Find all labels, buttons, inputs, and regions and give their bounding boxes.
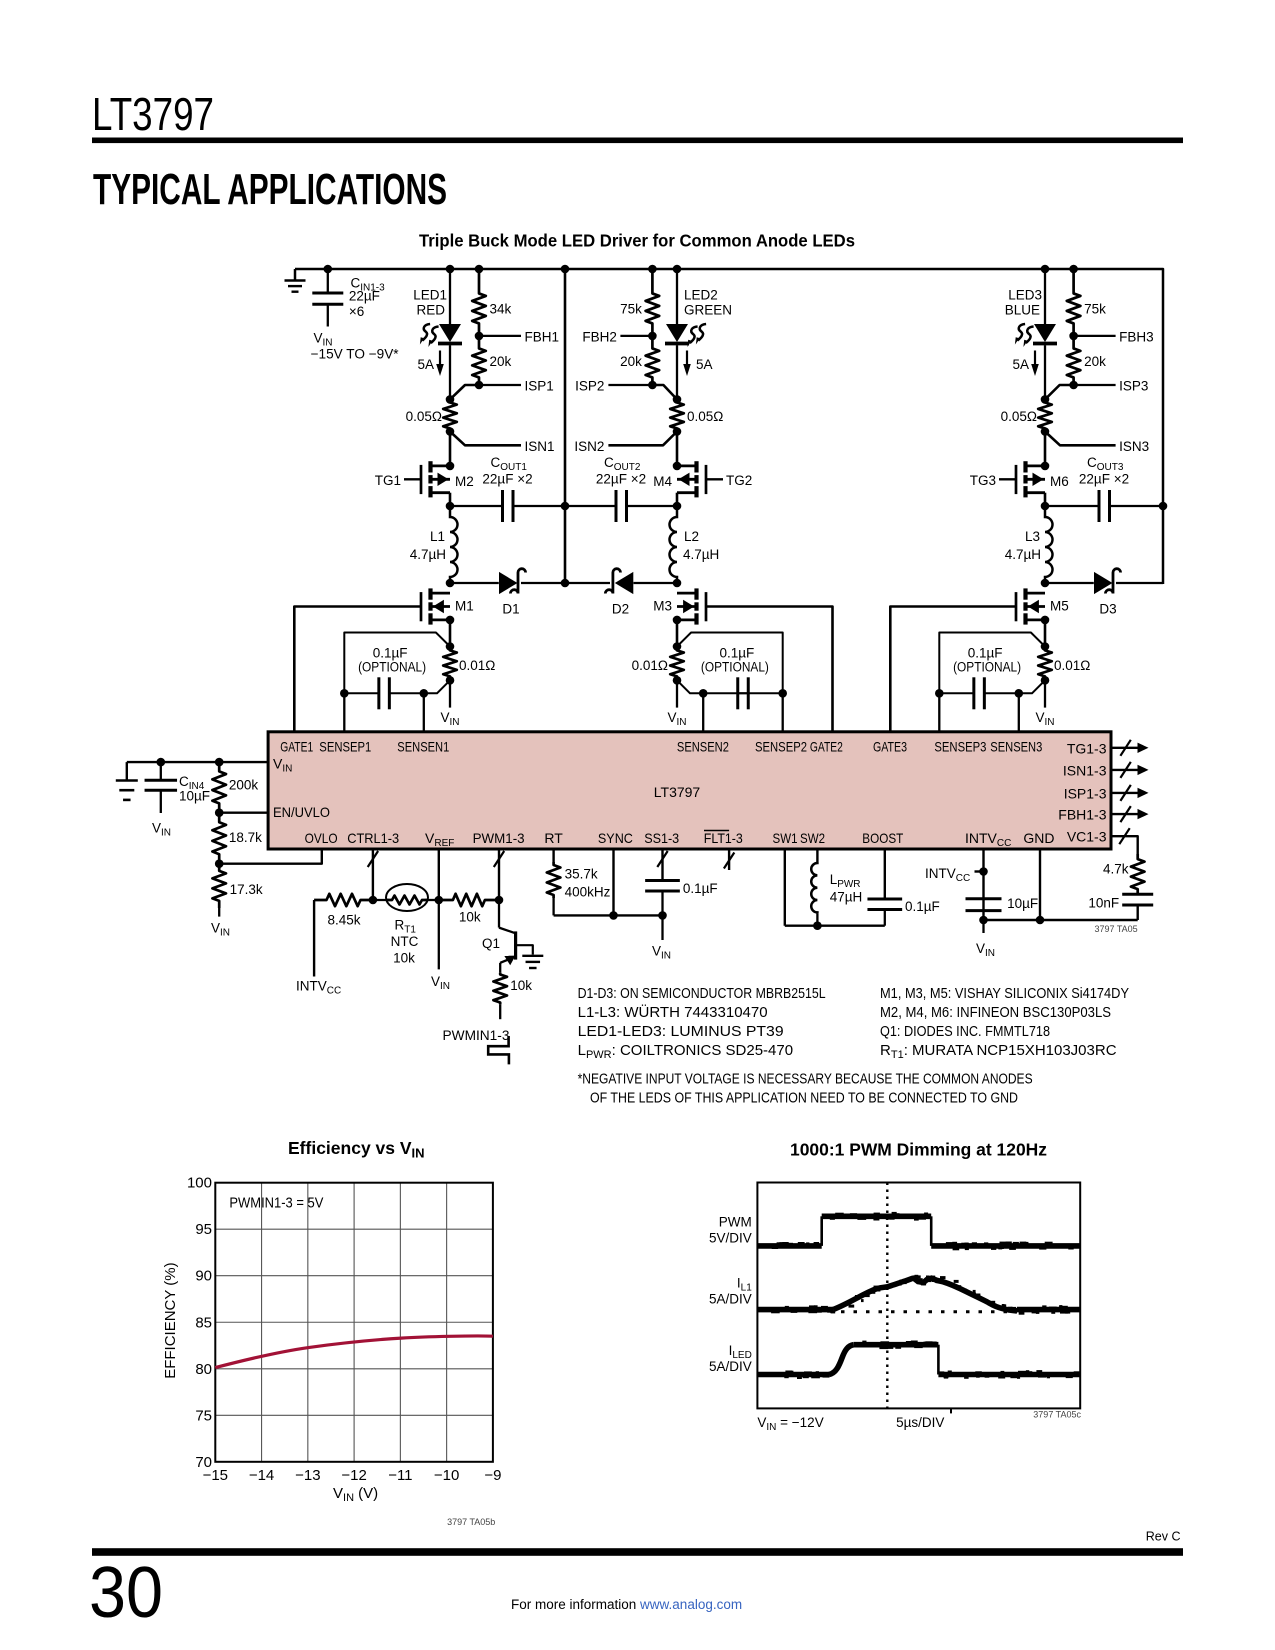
node VIN return channel 3 — [1044, 680, 1046, 707]
svg-text:M4: M4 — [653, 474, 672, 489]
svg-text:400kHz: 400kHz — [565, 885, 611, 900]
node SW2 switch node — [673, 579, 682, 588]
wire FBH1-3 output with arrow — [1111, 813, 1139, 815]
node SW3 switch node — [1041, 579, 1050, 588]
node VIN return channel 1 — [449, 680, 451, 707]
svg-text:4.7k: 4.7k — [1103, 862, 1129, 877]
svg-text:0.05Ω: 0.05Ω — [406, 409, 442, 424]
svg-text:−15: −15 — [203, 1467, 228, 1484]
capacitor 0.1uF BOOST — [884, 849, 886, 898]
node FBH1 — [475, 332, 484, 341]
svg-text:0.1µF: 0.1µF — [720, 645, 755, 660]
wire LED1 anode from rail — [446, 265, 455, 274]
capacitor COUT3 22uF x2 — [1045, 505, 1099, 507]
wire SYNC pin stub — [612, 849, 614, 915]
capacitor 10uF INTVCC — [966, 897, 1002, 900]
LED LED1 RED — [439, 324, 461, 342]
svg-text:TG1: TG1 — [375, 473, 401, 488]
svg-text:EFFICIENCY (%): EFFICIENCY (%) — [162, 1262, 179, 1378]
svg-text:ISP2: ISP2 — [575, 379, 604, 394]
svg-text:RED: RED — [416, 303, 445, 318]
svg-text:−15V TO −9V*: −15V TO −9V* — [311, 346, 400, 361]
svg-text:RT: RT — [544, 830, 563, 846]
svg-text:5µs/DIV: 5µs/DIV — [896, 1415, 944, 1430]
svg-text:90: 90 — [195, 1268, 212, 1285]
svg-text:M5: M5 — [1050, 599, 1069, 614]
svg-text:10k: 10k — [393, 951, 415, 966]
svg-text:−13: −13 — [295, 1467, 320, 1484]
svg-text:L3: L3 — [1025, 529, 1040, 544]
svg-text:22µF ×2: 22µF ×2 — [482, 472, 532, 487]
svg-text:FLT1-3: FLT1-3 — [704, 830, 743, 846]
svg-text:22µF ×2: 22µF ×2 — [596, 472, 646, 487]
wire TG1-3 output with arrow — [1111, 747, 1139, 749]
wire LED2 cathode — [676, 345, 678, 399]
svg-text:LED2: LED2 — [684, 288, 718, 303]
svg-text:Triple Buck Mode LED Driver fo: Triple Buck Mode LED Driver for Common A… — [419, 231, 855, 251]
svg-text:BLUE: BLUE — [1005, 303, 1040, 318]
resistor 0.05 ohm sense channel 2 — [673, 395, 682, 404]
svg-text:BOOST: BOOST — [862, 830, 903, 846]
scope trace IL1 noise — [830, 1310, 834, 1313]
wire SENSEP2 pin — [782, 693, 784, 732]
svg-text:D1: D1 — [502, 602, 519, 617]
svg-text:20k: 20k — [1084, 354, 1106, 369]
wire VIN pin to input — [127, 761, 268, 763]
ground symbol at input — [294, 269, 297, 280]
node ISP1 — [475, 381, 484, 390]
svg-text:M3: M3 — [653, 599, 672, 614]
transistor M1 NMOS — [428, 588, 432, 599]
current label 5A channel 3 — [1034, 351, 1036, 366]
scope trace PWM — [757, 1243, 821, 1249]
svg-text:47µH: 47µH — [830, 890, 863, 905]
svg-text:GATE3: GATE3 — [873, 739, 907, 755]
svg-text:NTC: NTC — [391, 934, 419, 949]
resistor 75k channel 3 — [1069, 265, 1078, 274]
resistor 10k base — [439, 894, 499, 906]
resistor 34k channel 1 — [475, 265, 484, 274]
wire LED3 cathode — [1044, 345, 1046, 399]
scope trace IL1 zero dotted baseline — [841, 1310, 1017, 1313]
wire M1 source node — [446, 616, 455, 625]
svg-text:SS1-3: SS1-3 — [644, 830, 679, 846]
svg-text:100: 100 — [187, 1175, 212, 1192]
node FBH2 — [648, 332, 657, 341]
svg-text:SENSEN2: SENSEN2 — [677, 739, 729, 755]
svg-text:FBH1-3: FBH1-3 — [1058, 807, 1106, 823]
svg-text:FBH3: FBH3 — [1119, 330, 1154, 345]
capacitor CIN4 10uF — [157, 758, 166, 767]
svg-text:75: 75 — [195, 1407, 212, 1424]
resistor 4.7k compensation — [1131, 854, 1145, 894]
wire M5 source node — [1041, 616, 1050, 625]
svg-text:75k: 75k — [620, 302, 642, 317]
wire INTVCC supply stub — [313, 900, 315, 977]
node SW1 switch node — [446, 579, 455, 588]
node ISN3 — [1045, 432, 1116, 446]
wire sense to M6 — [1044, 432, 1047, 466]
svg-text:D3: D3 — [1099, 602, 1116, 617]
svg-text:For more information www.analo: For more information www.analog.com — [511, 1597, 742, 1612]
svg-text:20k: 20k — [620, 354, 642, 369]
resistor 20k channel 3 — [1067, 336, 1081, 385]
svg-text:17.3k: 17.3k — [230, 882, 263, 897]
svg-text:0.01Ω: 0.01Ω — [459, 658, 495, 673]
svg-text:VIN (V): VIN (V) — [333, 1485, 378, 1504]
capacitor 0.1uF optional channel 3 — [939, 633, 1045, 694]
svg-text:10k: 10k — [510, 978, 532, 993]
node output bus channel 3 — [1159, 502, 1168, 511]
svg-text:GREEN: GREEN — [684, 303, 732, 318]
resistor 75k channel 2 — [648, 265, 657, 274]
svg-text:5A: 5A — [1012, 357, 1029, 372]
thermistor RT1 NTC 10k — [373, 899, 389, 901]
resistor 8.45k — [314, 894, 373, 906]
svg-text:5A/DIV: 5A/DIV — [709, 1292, 752, 1307]
svg-text:85: 85 — [195, 1314, 212, 1331]
wire ISN1-3 output with arrow — [1111, 769, 1139, 771]
diode D2 schottky — [565, 582, 610, 584]
resistor 0.01 ohm channel 2 — [673, 642, 682, 651]
svg-text:SW1: SW1 — [773, 830, 798, 846]
svg-text:0.05Ω: 0.05Ω — [1001, 409, 1037, 424]
svg-text:22µF: 22µF — [349, 289, 380, 304]
diode D3 schottky — [1045, 582, 1094, 584]
wire LED2 anode from rail — [673, 265, 682, 274]
transistor M3 NMOS — [694, 588, 698, 599]
scope trace ILED led current — [757, 1372, 829, 1378]
svg-text:OF THE LEDS OF THIS APPLICATIO: OF THE LEDS OF THIS APPLICATION NEED TO … — [590, 1089, 1018, 1106]
resistor 35.7k RT — [552, 849, 554, 862]
svg-text:22µF ×2: 22µF ×2 — [1079, 472, 1129, 487]
svg-text:34k: 34k — [490, 302, 512, 317]
footer bar — [92, 1548, 1183, 1556]
svg-text:LED3: LED3 — [1008, 288, 1042, 303]
svg-text:0.01Ω: 0.01Ω — [632, 658, 668, 673]
svg-text:(OPTIONAL): (OPTIONAL) — [358, 660, 426, 675]
wire sense to M4 — [676, 432, 679, 466]
chart efficiency gridlines — [261, 1183, 263, 1462]
resistor 0.01 ohm channel 3 — [1041, 642, 1050, 651]
wire VC1-3 to compensation — [1111, 836, 1138, 854]
wire SENSEN2 pin — [702, 693, 704, 732]
wire GATE3 to M5 gate — [890, 607, 1016, 732]
wire sense to M2 — [449, 432, 452, 466]
svg-text:200k: 200k — [229, 778, 259, 793]
svg-text:D2: D2 — [612, 602, 629, 617]
svg-text:L1: L1 — [430, 529, 445, 544]
svg-text:−12: −12 — [341, 1467, 366, 1484]
resistor 17.3k — [212, 864, 226, 908]
svg-text:3797 TA05c: 3797 TA05c — [1033, 1410, 1081, 1420]
resistor 20k channel 2 — [646, 336, 660, 385]
wire GND return bottom right — [984, 919, 1138, 921]
svg-text:95: 95 — [195, 1221, 212, 1238]
svg-text:Q1: Q1 — [482, 936, 500, 951]
svg-text:Efficiency vs VIN: Efficiency vs VIN — [288, 1138, 425, 1161]
resistor 0.05 ohm sense channel 3 — [1041, 395, 1050, 404]
svg-text:80: 80 — [195, 1361, 212, 1378]
svg-text:VC1-3: VC1-3 — [1067, 829, 1107, 845]
svg-text:LED1-LED3: LUMINUS PT39: LED1-LED3: LUMINUS PT39 — [578, 1023, 784, 1040]
svg-text:(OPTIONAL): (OPTIONAL) — [701, 660, 769, 675]
svg-text:*NEGATIVE INPUT VOLTAGE IS NEC: *NEGATIVE INPUT VOLTAGE IS NECESSARY BEC… — [578, 1071, 1033, 1088]
svg-text:ISN1: ISN1 — [525, 439, 555, 454]
svg-text:SENSEP3: SENSEP3 — [934, 739, 986, 755]
svg-text:(OPTIONAL): (OPTIONAL) — [953, 660, 1021, 675]
svg-text:30: 30 — [89, 1553, 163, 1633]
svg-text:0.05Ω: 0.05Ω — [687, 409, 723, 424]
svg-text:ISP1-3: ISP1-3 — [1064, 785, 1107, 801]
resistor 200k — [215, 758, 224, 767]
scope trace IL1 inductor current — [757, 1307, 833, 1313]
svg-text:SENSEN1: SENSEN1 — [397, 739, 449, 755]
capacitor COUT1 22uF x2 — [450, 505, 503, 507]
transistor M5 NMOS — [1023, 588, 1027, 599]
svg-text:GND: GND — [1023, 830, 1054, 846]
svg-text:FBH1: FBH1 — [525, 330, 560, 345]
wire M3 source node — [673, 616, 682, 625]
svg-text:20k: 20k — [490, 354, 512, 369]
inductor LPWR 47uH — [816, 849, 818, 862]
svg-text:0.1µF: 0.1µF — [373, 645, 408, 660]
diode D1 schottky — [450, 582, 499, 584]
chart pwm frame — [757, 1183, 1080, 1409]
svg-text:M1, M3, M5: VISHAY SILICONIX S: M1, M3, M5: VISHAY SILICONIX Si4174DY — [880, 985, 1129, 1002]
node VIN bottom — [979, 916, 988, 925]
svg-text:RT1: MURATA NCP15XH103J03RC: RT1: MURATA NCP15XH103J03RC — [880, 1042, 1117, 1061]
svg-text:Rev C: Rev C — [1146, 1530, 1181, 1544]
node ISN1 — [450, 432, 521, 446]
svg-text:ISP3: ISP3 — [1119, 379, 1148, 394]
svg-text:10k: 10k — [459, 910, 481, 925]
svg-text:ISN3: ISN3 — [1119, 439, 1149, 454]
wire GND pin stub — [1039, 849, 1041, 920]
node PWM — [495, 896, 504, 905]
svg-text:10µF: 10µF — [1007, 896, 1038, 911]
svg-text:0.1µF: 0.1µF — [968, 645, 1003, 660]
wire SW1 pin stub — [784, 849, 786, 926]
LED LED2 GREEN — [666, 324, 688, 342]
svg-text:35.7k: 35.7k — [565, 867, 598, 882]
svg-text:−10: −10 — [434, 1467, 459, 1484]
svg-text:PWM1-3: PWM1-3 — [473, 830, 525, 846]
svg-text:EN/UVLO: EN/UVLO — [273, 804, 330, 820]
svg-text:4.7µH: 4.7µH — [410, 547, 446, 562]
inductor L2 4.7uH — [670, 506, 678, 583]
svg-text:0.1µF: 0.1µF — [905, 899, 940, 914]
wire SENSEN3 pin — [1018, 693, 1020, 732]
svg-text:5A: 5A — [696, 357, 713, 372]
svg-text:L1-L3: WÜRTH 7443310470: L1-L3: WÜRTH 7443310470 — [578, 1003, 768, 1021]
wire M6 drain to output node — [1044, 493, 1047, 506]
wire SENSEN1 pin — [423, 693, 425, 732]
wire VREF pin stub — [438, 849, 440, 900]
svg-text:18.7k: 18.7k — [229, 830, 262, 845]
wire GATE1 to M1 gate — [294, 607, 421, 732]
svg-text:D1-D3: ON SEMICONDUCTOR MBRB25: D1-D3: ON SEMICONDUCTOR MBRB2515L — [578, 985, 826, 1002]
svg-text:10nF: 10nF — [1088, 896, 1119, 911]
svg-text:3797 TA05b: 3797 TA05b — [447, 1517, 495, 1527]
svg-text:PWMIN1-3: PWMIN1-3 — [443, 1028, 510, 1043]
svg-text:−9: −9 — [484, 1467, 501, 1484]
wire SENSEP1 pin — [343, 693, 345, 732]
svg-text:4.7µH: 4.7µH — [1005, 547, 1041, 562]
capacitor COUT2 22uF x2 — [565, 505, 616, 507]
svg-text:4.7µH: 4.7µH — [683, 547, 719, 562]
resistor 18.7k — [212, 813, 226, 864]
ground symbol CIN4 — [126, 762, 128, 779]
chart efficiency curve — [215, 1336, 493, 1368]
wire EN/UVLO — [215, 808, 224, 817]
node ISN2 — [608, 432, 677, 446]
svg-text:CTRL1-3: CTRL1-3 — [347, 830, 399, 846]
svg-text:5A: 5A — [417, 357, 434, 372]
node ISP3 — [1069, 381, 1078, 390]
svg-text:GATE1: GATE1 — [280, 739, 313, 755]
svg-text:TG3: TG3 — [970, 473, 996, 488]
svg-text:10µF: 10µF — [179, 789, 210, 804]
svg-text:1000:1 PWM Dimming at 120Hz: 1000:1 PWM Dimming at 120Hz — [790, 1140, 1047, 1160]
wire CTRL1-3 pin stub — [372, 849, 374, 900]
svg-text:LT3797: LT3797 — [92, 88, 214, 140]
capacitor 0.1uF optional channel 2 — [677, 633, 783, 694]
transistor M2 PMOS — [428, 461, 432, 472]
capacitor 0.1uF optional channel 1 — [344, 633, 450, 694]
svg-text:SYNC: SYNC — [598, 830, 633, 846]
current label 5A channel 1 — [439, 351, 441, 366]
chart efficiency frame — [215, 1183, 493, 1462]
svg-text:0.01Ω: 0.01Ω — [1054, 658, 1090, 673]
svg-text:×6: ×6 — [349, 304, 364, 319]
header rule — [92, 138, 1183, 144]
svg-text:SW2: SW2 — [800, 830, 825, 846]
op-amp U1 LT3797 controller IC body — [268, 732, 1111, 849]
svg-text:TG1-3: TG1-3 — [1067, 740, 1107, 756]
svg-text:OVLO: OVLO — [305, 830, 338, 846]
wire output bus channel 1-2 — [564, 269, 567, 583]
wire GATE2 to M3 gate — [706, 607, 833, 732]
svg-text:GATE2: GATE2 — [810, 739, 843, 755]
wire PWM1-3 pin stub — [498, 849, 500, 900]
node ISP2 — [648, 381, 657, 390]
node VREF junction — [435, 896, 444, 905]
resistor 0.01 ohm channel 1 — [446, 642, 455, 651]
wire OVLO — [215, 859, 224, 868]
svg-text:M6: M6 — [1050, 474, 1069, 489]
svg-text:ISN1-3: ISN1-3 — [1063, 762, 1107, 778]
wire INTVCC pin stub — [982, 849, 984, 920]
wire SENSEP3 pin — [938, 693, 940, 732]
node CTRL — [369, 896, 378, 905]
capacitor 0.1uF SS1-3 — [661, 849, 663, 880]
wire ISP1-3 output with arrow — [1111, 792, 1139, 794]
svg-text:0.1µF: 0.1µF — [683, 881, 718, 896]
svg-text:5A/DIV: 5A/DIV — [709, 1359, 752, 1374]
node VIN top rail wire — [295, 269, 1163, 584]
svg-text:M2, M4, M6: INFINEON BSC130P03: M2, M4, M6: INFINEON BSC130P03LS — [880, 1004, 1111, 1021]
svg-text:Q1: DIODES INC. FMMTL718: Q1: DIODES INC. FMMTL718 — [880, 1023, 1050, 1040]
inductor L1 4.7uH — [450, 506, 458, 583]
transistor Q1 PNP — [498, 900, 500, 928]
svg-text:M2: M2 — [455, 474, 474, 489]
svg-text:PWMIN1-3 = 5V: PWMIN1-3 = 5V — [229, 1195, 323, 1212]
node VIN return channel 2 — [676, 680, 678, 707]
svg-text:TYPICAL APPLICATIONS: TYPICAL APPLICATIONS — [93, 165, 447, 214]
inductor L3 4.7uH — [1045, 506, 1053, 583]
wire M4 drain to output node — [676, 493, 679, 506]
svg-text:3797 TA05: 3797 TA05 — [1094, 924, 1137, 934]
capacitor CIN1-3 — [324, 265, 333, 274]
svg-text:ISN2: ISN2 — [574, 439, 604, 454]
svg-text:SENSEP2: SENSEP2 — [755, 739, 807, 755]
svg-text:L2: L2 — [684, 529, 699, 544]
node FBH3 — [1069, 332, 1078, 341]
wire boost loop — [785, 925, 885, 927]
svg-text:LED1: LED1 — [413, 288, 447, 303]
svg-text:−11: −11 — [388, 1467, 412, 1484]
wire LED1 cathode — [449, 345, 451, 399]
svg-text:LT3797: LT3797 — [654, 784, 701, 800]
svg-text:PWM: PWM — [719, 1215, 752, 1230]
svg-text:M1: M1 — [455, 599, 474, 614]
svg-text:TG2: TG2 — [726, 473, 752, 488]
wire FLT1-3 pin stub — [728, 849, 730, 870]
wire M2 drain to output node — [449, 493, 452, 506]
chart pwm center dotted line — [886, 1183, 888, 1409]
svg-text:SENSEP1: SENSEP1 — [319, 739, 371, 755]
svg-text:SENSEN3: SENSEN3 — [990, 739, 1042, 755]
svg-text:75k: 75k — [1084, 302, 1106, 317]
ground symbol Q1 base — [522, 955, 543, 957]
wire RT SYNC SS ground bus — [554, 914, 663, 916]
wire LED3 anode from rail — [1041, 265, 1050, 274]
capacitor 10nF compensation — [1122, 893, 1153, 896]
svg-text:8.45k: 8.45k — [327, 913, 360, 928]
svg-text:−14: −14 — [249, 1467, 274, 1484]
transistor M6 PMOS — [1023, 461, 1027, 472]
resistor 10k pull — [493, 973, 507, 1004]
svg-text:ISP1: ISP1 — [525, 379, 554, 394]
resistor 0.05 ohm sense channel 1 — [446, 395, 455, 404]
resistor 20k channel 1 — [472, 336, 486, 385]
transistor M4 PMOS — [694, 461, 698, 472]
svg-text:FBH2: FBH2 — [582, 330, 617, 345]
svg-text:5V/DIV: 5V/DIV — [709, 1231, 752, 1246]
current label 5A channel 2 — [686, 351, 688, 366]
LED LED3 BLUE — [1034, 324, 1056, 342]
